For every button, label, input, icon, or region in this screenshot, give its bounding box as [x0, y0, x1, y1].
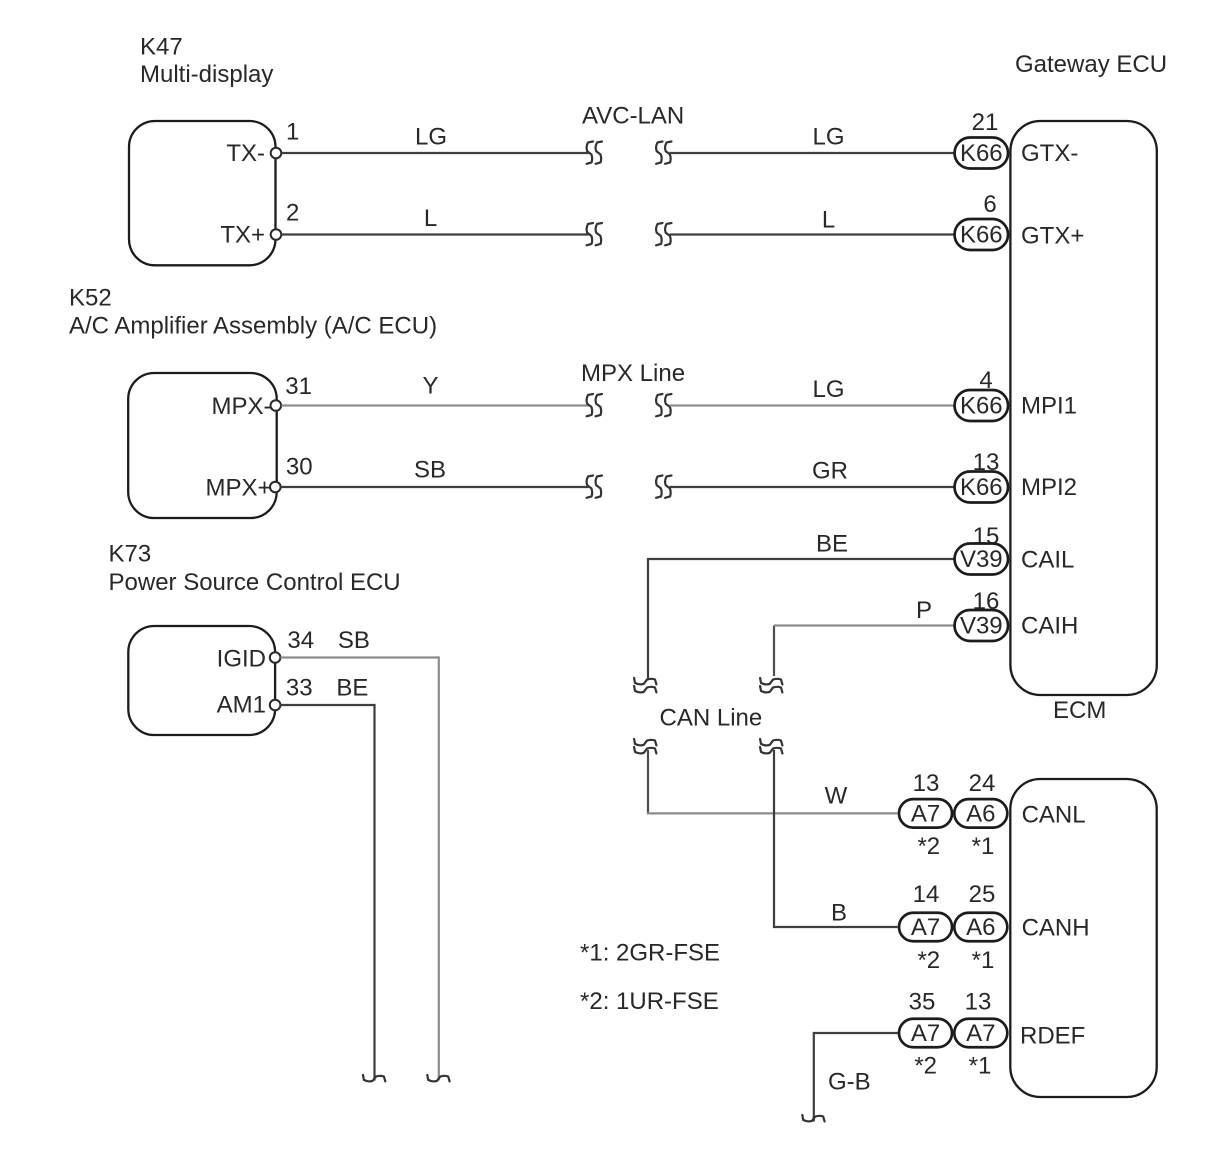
wire CANH B wire: [774, 750, 898, 927]
svg-text:*2: *2: [914, 1053, 937, 1080]
wire TX+ to break L: [282, 233, 589, 235]
connector box ECM: [1010, 779, 1156, 1097]
svg-text:MPX+: MPX+: [205, 474, 271, 501]
pin terminal IGID pin: [270, 652, 281, 663]
svg-text:A/C Amplifier Assembly (A/C EC: A/C Amplifier Assembly (A/C ECU): [69, 312, 437, 339]
svg-text:*2: 1UR-FSE: *2: 1UR-FSE: [580, 988, 719, 1015]
break symbol row3 right: [656, 394, 671, 416]
svg-text:13: 13: [965, 989, 992, 1016]
svg-text:LG: LG: [415, 124, 447, 151]
svg-text:A7: A7: [966, 1020, 995, 1047]
pin terminal AM1 pin: [270, 700, 281, 711]
svg-text:13: 13: [913, 770, 940, 797]
svg-text:21: 21: [972, 109, 999, 136]
svg-text:CANL: CANL: [1022, 802, 1086, 829]
break symbol row4 right: [656, 476, 671, 498]
svg-text:MPI1: MPI1: [1021, 393, 1077, 420]
connector code A7 CANL: [899, 799, 952, 828]
wire MPX+ to break SB: [281, 486, 589, 488]
break symbol CAN upper right: [760, 678, 782, 692]
pin terminal MPX- pin: [271, 400, 282, 411]
svg-text:L: L: [822, 206, 835, 233]
svg-text:AVC-LAN: AVC-LAN: [582, 102, 684, 129]
connector code A7 RDEF left: [899, 1019, 952, 1048]
svg-text:K52: K52: [69, 285, 112, 312]
connector box K47 Multi-display: [129, 121, 276, 265]
svg-text:B: B: [831, 900, 847, 927]
wire MPX- to break Y: [281, 404, 588, 406]
connector code K66 MPI2: [955, 472, 1009, 503]
svg-text:LG: LG: [812, 123, 844, 150]
pin terminal MPX+ pin: [270, 482, 281, 493]
connector code A7 RDEF right: [954, 1019, 1007, 1048]
svg-text:MPX-: MPX-: [212, 393, 272, 420]
connector code A6 CANL: [954, 799, 1007, 828]
break symbol row3 left: [587, 394, 602, 416]
svg-text:Y: Y: [422, 373, 438, 400]
wire RDEF G-B wire: [814, 1033, 898, 1122]
svg-text:A6: A6: [966, 801, 995, 828]
svg-text:L: L: [424, 205, 437, 232]
break symbol CAN upper left: [634, 678, 656, 692]
svg-text:A7: A7: [911, 801, 940, 828]
svg-text:TX-: TX-: [226, 140, 265, 167]
svg-text:CAN Line: CAN Line: [660, 704, 763, 731]
svg-text:Multi-display: Multi-display: [140, 61, 273, 88]
wire TX- to break LG: [282, 152, 589, 154]
connector code K66 MPI1: [955, 390, 1009, 421]
wire break to GTX+ L: [670, 233, 955, 235]
svg-text:*1: *1: [972, 947, 995, 974]
svg-text:IGID: IGID: [217, 646, 266, 673]
connector code A6 CANH: [954, 913, 1007, 942]
svg-text:*1: *1: [972, 833, 995, 860]
svg-text:24: 24: [969, 770, 996, 797]
wire CANL W vertical: [647, 750, 649, 815]
svg-text:LG: LG: [812, 376, 844, 403]
svg-text:2: 2: [286, 200, 299, 227]
svg-text:K66: K66: [960, 393, 1003, 420]
wire break to GTX- LG: [670, 152, 955, 154]
svg-text:GR: GR: [812, 458, 848, 485]
svg-text:A7: A7: [911, 1020, 940, 1047]
break symbol CAN lower right: [760, 739, 782, 753]
connector code V39 CAIL: [955, 544, 1009, 575]
connector code K66 GTX-: [955, 138, 1009, 169]
svg-text:*2: *2: [917, 947, 940, 974]
pin terminal TX- pin: [271, 148, 282, 159]
svg-text:BE: BE: [336, 675, 368, 702]
svg-text:G-B: G-B: [828, 1069, 871, 1096]
wire break to MPI1 LG: [670, 404, 955, 406]
svg-text:CANH: CANH: [1022, 915, 1090, 942]
wire IGID SB wire: [280, 658, 438, 1081]
svg-text:P: P: [916, 597, 932, 624]
wire CANL W horizontal: [647, 812, 898, 814]
connector box K73 Power Source Control ECU: [128, 626, 275, 735]
break symbol row1 right: [656, 142, 671, 164]
svg-text:TX+: TX+: [220, 222, 265, 249]
svg-text:CAIL: CAIL: [1021, 547, 1074, 574]
svg-text:BE: BE: [816, 531, 848, 558]
connector code A7 CANH: [899, 913, 952, 942]
wire CAIH P horizontal: [774, 624, 955, 626]
svg-text:31: 31: [285, 373, 312, 400]
svg-text:K66: K66: [960, 222, 1003, 249]
wire continuation mark G-B wire end: [802, 1115, 824, 1121]
svg-text:K73: K73: [109, 541, 152, 568]
break symbol CAN lower left: [634, 739, 656, 753]
connector box Gateway ECU: [1010, 121, 1156, 695]
connector code K66 GTX+: [955, 219, 1009, 250]
connector code V39 CAIH: [955, 610, 1009, 641]
wire continuation mark BE wire end: [363, 1075, 385, 1081]
svg-text:Power Source Control ECU: Power Source Control ECU: [109, 569, 401, 596]
svg-text:33: 33: [286, 675, 313, 702]
svg-text:SB: SB: [414, 457, 446, 484]
svg-text:1: 1: [286, 119, 299, 146]
svg-text:W: W: [825, 783, 848, 810]
svg-text:A6: A6: [966, 914, 995, 941]
wire CAIL BE wire: [648, 559, 955, 679]
svg-text:MPX Line: MPX Line: [581, 360, 685, 387]
svg-text:K66: K66: [960, 474, 1003, 501]
break symbol row4 left: [587, 476, 602, 498]
svg-text:SB: SB: [338, 627, 370, 654]
svg-text:RDEF: RDEF: [1020, 1023, 1085, 1050]
svg-text:K47: K47: [140, 34, 183, 61]
svg-text:V39: V39: [960, 613, 1003, 640]
wire continuation mark SB wire end: [427, 1075, 449, 1081]
svg-text:GTX+: GTX+: [1021, 223, 1084, 250]
svg-text:35: 35: [909, 989, 936, 1016]
wire CAIH P vertical: [773, 626, 775, 677]
svg-text:K66: K66: [960, 140, 1003, 167]
break symbol row1 left: [587, 142, 602, 164]
wire AM1 BE wire: [280, 705, 374, 1081]
svg-text:Gateway ECU: Gateway ECU: [1015, 51, 1167, 78]
svg-text:CAIH: CAIH: [1021, 613, 1078, 640]
svg-text:A7: A7: [911, 914, 940, 941]
svg-text:ECM: ECM: [1053, 697, 1106, 724]
connector box K52 A/C Amplifier: [128, 373, 277, 518]
svg-text:6: 6: [983, 191, 996, 218]
svg-text:*2: *2: [917, 833, 940, 860]
svg-text:*1: *1: [969, 1053, 992, 1080]
wire break to MPI2 GR: [670, 486, 955, 488]
svg-text:14: 14: [913, 881, 940, 908]
svg-text:*1: 2GR-FSE: *1: 2GR-FSE: [580, 940, 720, 967]
break symbol row2 right: [656, 223, 671, 245]
svg-text:25: 25: [969, 881, 996, 908]
svg-text:MPI2: MPI2: [1021, 474, 1077, 501]
svg-text:AM1: AM1: [217, 692, 266, 719]
svg-text:30: 30: [286, 454, 313, 481]
svg-text:34: 34: [287, 627, 314, 654]
pin terminal TX+ pin: [271, 229, 282, 240]
break symbol row2 left: [587, 223, 602, 245]
svg-text:V39: V39: [960, 546, 1003, 573]
svg-text:GTX-: GTX-: [1021, 140, 1078, 167]
